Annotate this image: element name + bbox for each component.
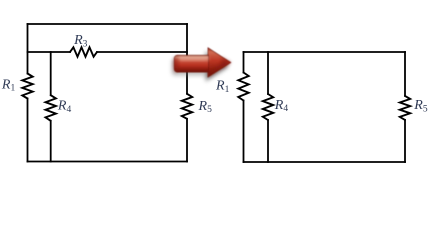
- label R4 (right circuit): [274, 98, 289, 114]
- arrow head shadow: [206, 52, 229, 81]
- wire: left circuit right edge upper: [186, 24, 188, 94]
- wire: left circuit right edge lower: [186, 119, 188, 162]
- svg-text:R5: R5: [198, 99, 213, 115]
- arrow head bevel shading: [208, 62, 231, 77]
- wire: right circuit top edge: [244, 51, 406, 53]
- resistor R4 (right circuit) zigzag: [263, 94, 273, 120]
- resistor R3 zigzag: [70, 47, 97, 56]
- arrow tail left dark cap: [173, 57, 178, 73]
- arrow shadow: [172, 51, 229, 80]
- resistor R5 (right circuit) zigzag: [400, 96, 410, 120]
- wire: right circuit left edge lower: [243, 101, 245, 163]
- wire: left circuit top edge: [28, 23, 188, 25]
- label R3: [73, 33, 88, 49]
- label R5 (left circuit): [198, 99, 213, 115]
- resistor R5 (left circuit) zigzag: [182, 94, 192, 119]
- label R1 (right circuit): [215, 79, 230, 95]
- wire: left circuit left edge lower: [27, 99, 29, 162]
- arrow tail highlight: [179, 57, 209, 61]
- wire: right circuit bottom edge: [244, 161, 406, 163]
- resistor R1 (left circuit) zigzag: [22, 74, 32, 99]
- wire: right circuit left edge upper: [243, 52, 245, 73]
- wire: R4 branch lower: [50, 121, 52, 162]
- label R5 (right circuit): [413, 98, 428, 114]
- wire: right R4 branch upper: [267, 52, 269, 94]
- wire: right circuit right edge lower: [404, 120, 406, 162]
- wire: R4 branch upper: [50, 52, 52, 95]
- svg-text:R4: R4: [57, 99, 72, 115]
- wire: left circuit bottom edge: [28, 161, 188, 163]
- svg-text:R1: R1: [215, 79, 230, 95]
- wire: right circuit right edge upper: [404, 52, 406, 96]
- wire: inner horizontal wire right of R3: [97, 51, 187, 53]
- svg-text:R5: R5: [413, 98, 428, 114]
- arrow head: [208, 48, 231, 77]
- wire: left circuit left edge upper: [27, 24, 29, 74]
- wire: right R4 branch lower: [267, 120, 269, 162]
- arrow tail: [174, 55, 208, 72]
- resistor R4 (left circuit) zigzag: [46, 95, 56, 121]
- arrow tip dark shading: [222, 57, 231, 69]
- label R4 (left circuit): [57, 99, 72, 115]
- resistor R1 (right circuit) zigzag: [238, 73, 248, 101]
- svg-text:R1: R1: [1, 77, 16, 93]
- label R1 (left circuit): [1, 77, 16, 93]
- wire: inner horizontal wire left of R3: [28, 51, 71, 53]
- svg-text:R3: R3: [73, 33, 88, 49]
- svg-text:R4: R4: [274, 98, 289, 114]
